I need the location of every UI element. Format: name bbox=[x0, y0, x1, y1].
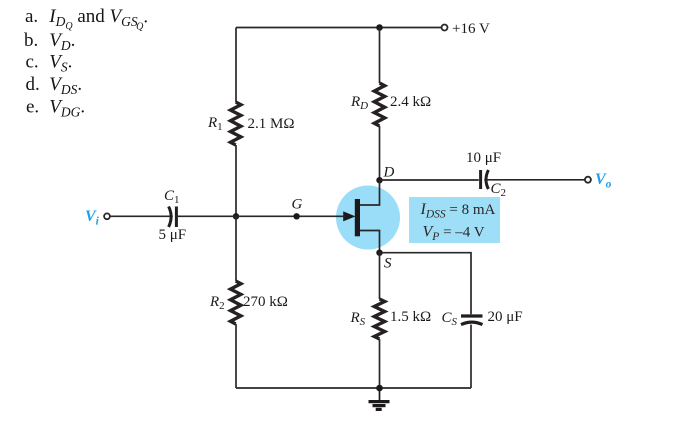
wire C1 to gate bbox=[176, 215, 345, 217]
svg-text:S: S bbox=[384, 256, 392, 272]
wire middle column top rail to RD bbox=[379, 28, 381, 84]
svg-text:10 μF: 10 μF bbox=[466, 150, 501, 166]
node D bbox=[376, 177, 382, 183]
wire left column top rail to R1 bbox=[235, 28, 237, 103]
svg-text:G: G bbox=[292, 197, 303, 213]
capacitor C2 bbox=[481, 170, 489, 189]
ground bbox=[369, 388, 390, 409]
node S bbox=[376, 250, 382, 256]
resistor R1 bbox=[231, 102, 241, 145]
resistor RD bbox=[374, 83, 384, 126]
capacitor C1 bbox=[169, 207, 177, 228]
wire RS to bottom rail bbox=[379, 339, 381, 388]
wire C2 to Vo bbox=[484, 179, 585, 181]
svg-text:5 μF: 5 μF bbox=[159, 227, 187, 243]
transistor JFET highlight circle bbox=[336, 186, 400, 250]
wire left column R2 to bottom rail bbox=[235, 324, 237, 388]
wire drain lead bbox=[358, 180, 380, 205]
svg-text:VP = –4 V: VP = –4 V bbox=[423, 224, 485, 243]
capacitor CS bbox=[461, 316, 483, 325]
wire Vi terminal to C1 bbox=[110, 215, 173, 217]
svg-text:D: D bbox=[383, 165, 395, 181]
transistor JFET gate arrow bbox=[343, 211, 355, 221]
svg-text:270 kΩ: 270 kΩ bbox=[243, 294, 288, 310]
wire CS to bottom rail bbox=[470, 325, 472, 388]
wire left column gate node to R2 bbox=[235, 216, 237, 281]
node G bbox=[293, 213, 299, 219]
svg-text:+16 V: +16 V bbox=[452, 21, 490, 37]
resistor R2 bbox=[231, 281, 241, 324]
node junction top rail / RD bbox=[376, 24, 383, 31]
wire S to RS bbox=[379, 253, 381, 299]
svg-text:2.4 kΩ: 2.4 kΩ bbox=[390, 94, 431, 110]
wire top rail bbox=[236, 27, 441, 29]
wire source lead bbox=[358, 231, 380, 253]
svg-text:2.1 MΩ: 2.1 MΩ bbox=[248, 116, 295, 132]
wire RD to node D bbox=[379, 126, 381, 180]
terminal Vi bbox=[104, 213, 110, 219]
svg-text:20 μF: 20 μF bbox=[488, 309, 523, 325]
resistor RS bbox=[374, 299, 384, 339]
wire left column R1 to gate node bbox=[235, 145, 237, 216]
transistor JFET channel bar bbox=[355, 199, 360, 236]
svg-text:1.5 kΩ: 1.5 kΩ bbox=[390, 309, 431, 325]
callout box IDSS VP bbox=[409, 197, 500, 243]
wire S to CS branch bbox=[380, 253, 472, 315]
node divider/gate junction bbox=[233, 213, 239, 219]
wire node D to C2 bbox=[380, 179, 479, 181]
wire bottom rail bbox=[236, 387, 471, 389]
terminal Vo bbox=[585, 177, 591, 183]
terminal +16 V bbox=[442, 25, 448, 31]
node bottom junction bbox=[376, 385, 383, 392]
